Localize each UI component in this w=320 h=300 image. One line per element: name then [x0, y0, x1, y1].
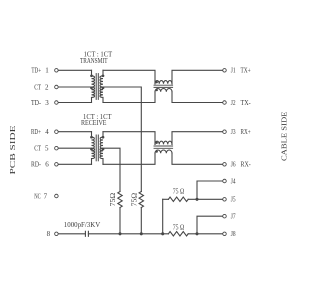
svg-text:RD+: RD+ — [31, 128, 41, 136]
svg-text:7: 7 — [44, 192, 48, 200]
svg-text:4: 4 — [45, 128, 49, 136]
svg-text:CABLE SIDE: CABLE SIDE — [281, 112, 289, 162]
svg-text:RX+: RX+ — [241, 128, 251, 136]
svg-text:RECEIVE: RECEIVE — [81, 119, 107, 127]
svg-text:TX-: TX- — [241, 99, 252, 107]
svg-text:J1: J1 — [231, 67, 236, 75]
svg-text:8: 8 — [47, 230, 51, 238]
svg-text:TD-: TD- — [31, 99, 42, 107]
svg-text:J6: J6 — [231, 161, 236, 169]
svg-text:1: 1 — [45, 67, 49, 75]
svg-text:J5: J5 — [231, 196, 236, 204]
svg-text:J2: J2 — [231, 99, 236, 107]
svg-text:TD+: TD+ — [31, 67, 41, 75]
svg-text:RD-: RD- — [31, 161, 42, 169]
svg-text:CT: CT — [34, 83, 41, 91]
svg-text:2: 2 — [45, 83, 49, 91]
svg-text:RX-: RX- — [241, 161, 252, 169]
svg-text:PCB SIDE: PCB SIDE — [9, 126, 17, 175]
svg-text:75 Ω: 75 Ω — [173, 223, 185, 231]
svg-text:NC: NC — [34, 192, 41, 200]
svg-text:75 Ω: 75 Ω — [173, 187, 185, 195]
svg-text:6: 6 — [45, 161, 49, 169]
svg-text:75Ω: 75Ω — [131, 193, 139, 207]
svg-text:1000pF/3KV: 1000pF/3KV — [64, 221, 100, 229]
svg-text:TRANSMIT: TRANSMIT — [80, 57, 108, 65]
svg-text:J8: J8 — [231, 230, 236, 238]
svg-text:3: 3 — [45, 99, 49, 107]
svg-text:5: 5 — [45, 145, 49, 153]
svg-text:J4: J4 — [231, 177, 236, 185]
svg-text:TX+: TX+ — [241, 67, 251, 75]
svg-text:75Ω: 75Ω — [109, 193, 117, 207]
svg-text:J7: J7 — [231, 213, 236, 221]
svg-text:CT: CT — [34, 145, 41, 153]
svg-text:J3: J3 — [231, 128, 236, 136]
